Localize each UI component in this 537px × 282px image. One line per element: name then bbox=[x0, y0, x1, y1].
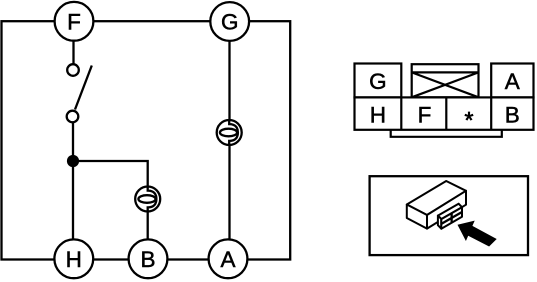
svg-text:H: H bbox=[370, 103, 386, 128]
terminal H bbox=[54, 239, 93, 278]
keyway box crossed bbox=[412, 64, 479, 97]
pin row bottom bbox=[355, 97, 534, 129]
terminal G bbox=[210, 2, 249, 41]
relay socket bbox=[438, 204, 462, 229]
svg-text:*: * bbox=[465, 107, 474, 133]
svg-text:H: H bbox=[66, 247, 82, 272]
svg-text:G: G bbox=[369, 69, 387, 94]
svg-text:B: B bbox=[505, 103, 520, 128]
pin box A bbox=[491, 64, 533, 98]
terminal F bbox=[55, 2, 94, 41]
switch contact top bbox=[67, 64, 79, 76]
relay body bbox=[407, 181, 466, 229]
wire G to A bbox=[228, 21, 230, 259]
svg-text:A: A bbox=[220, 247, 235, 272]
terminal B bbox=[129, 239, 168, 278]
terminal A bbox=[209, 239, 248, 278]
arrow bbox=[458, 221, 497, 247]
wire F to switch bbox=[72, 21, 74, 70]
wire switch to H bbox=[72, 116, 74, 259]
connector tab bracket bbox=[391, 130, 502, 137]
svg-text:F: F bbox=[67, 10, 81, 35]
pin box G bbox=[355, 64, 402, 98]
switch contact bottom bbox=[67, 111, 79, 123]
svg-text:G: G bbox=[221, 10, 239, 35]
switch lever bbox=[75, 66, 92, 110]
wire coil to B bbox=[147, 199, 149, 259]
svg-text:F: F bbox=[418, 103, 432, 128]
coil L2 bbox=[217, 120, 242, 145]
wire junction to coil branch bbox=[73, 161, 148, 199]
coil L1 bbox=[135, 187, 160, 212]
inset panel frame bbox=[370, 176, 528, 255]
junction node bbox=[67, 155, 79, 167]
schematic border box bbox=[2, 21, 291, 259]
svg-text:B: B bbox=[140, 247, 155, 272]
svg-text:A: A bbox=[505, 69, 520, 94]
